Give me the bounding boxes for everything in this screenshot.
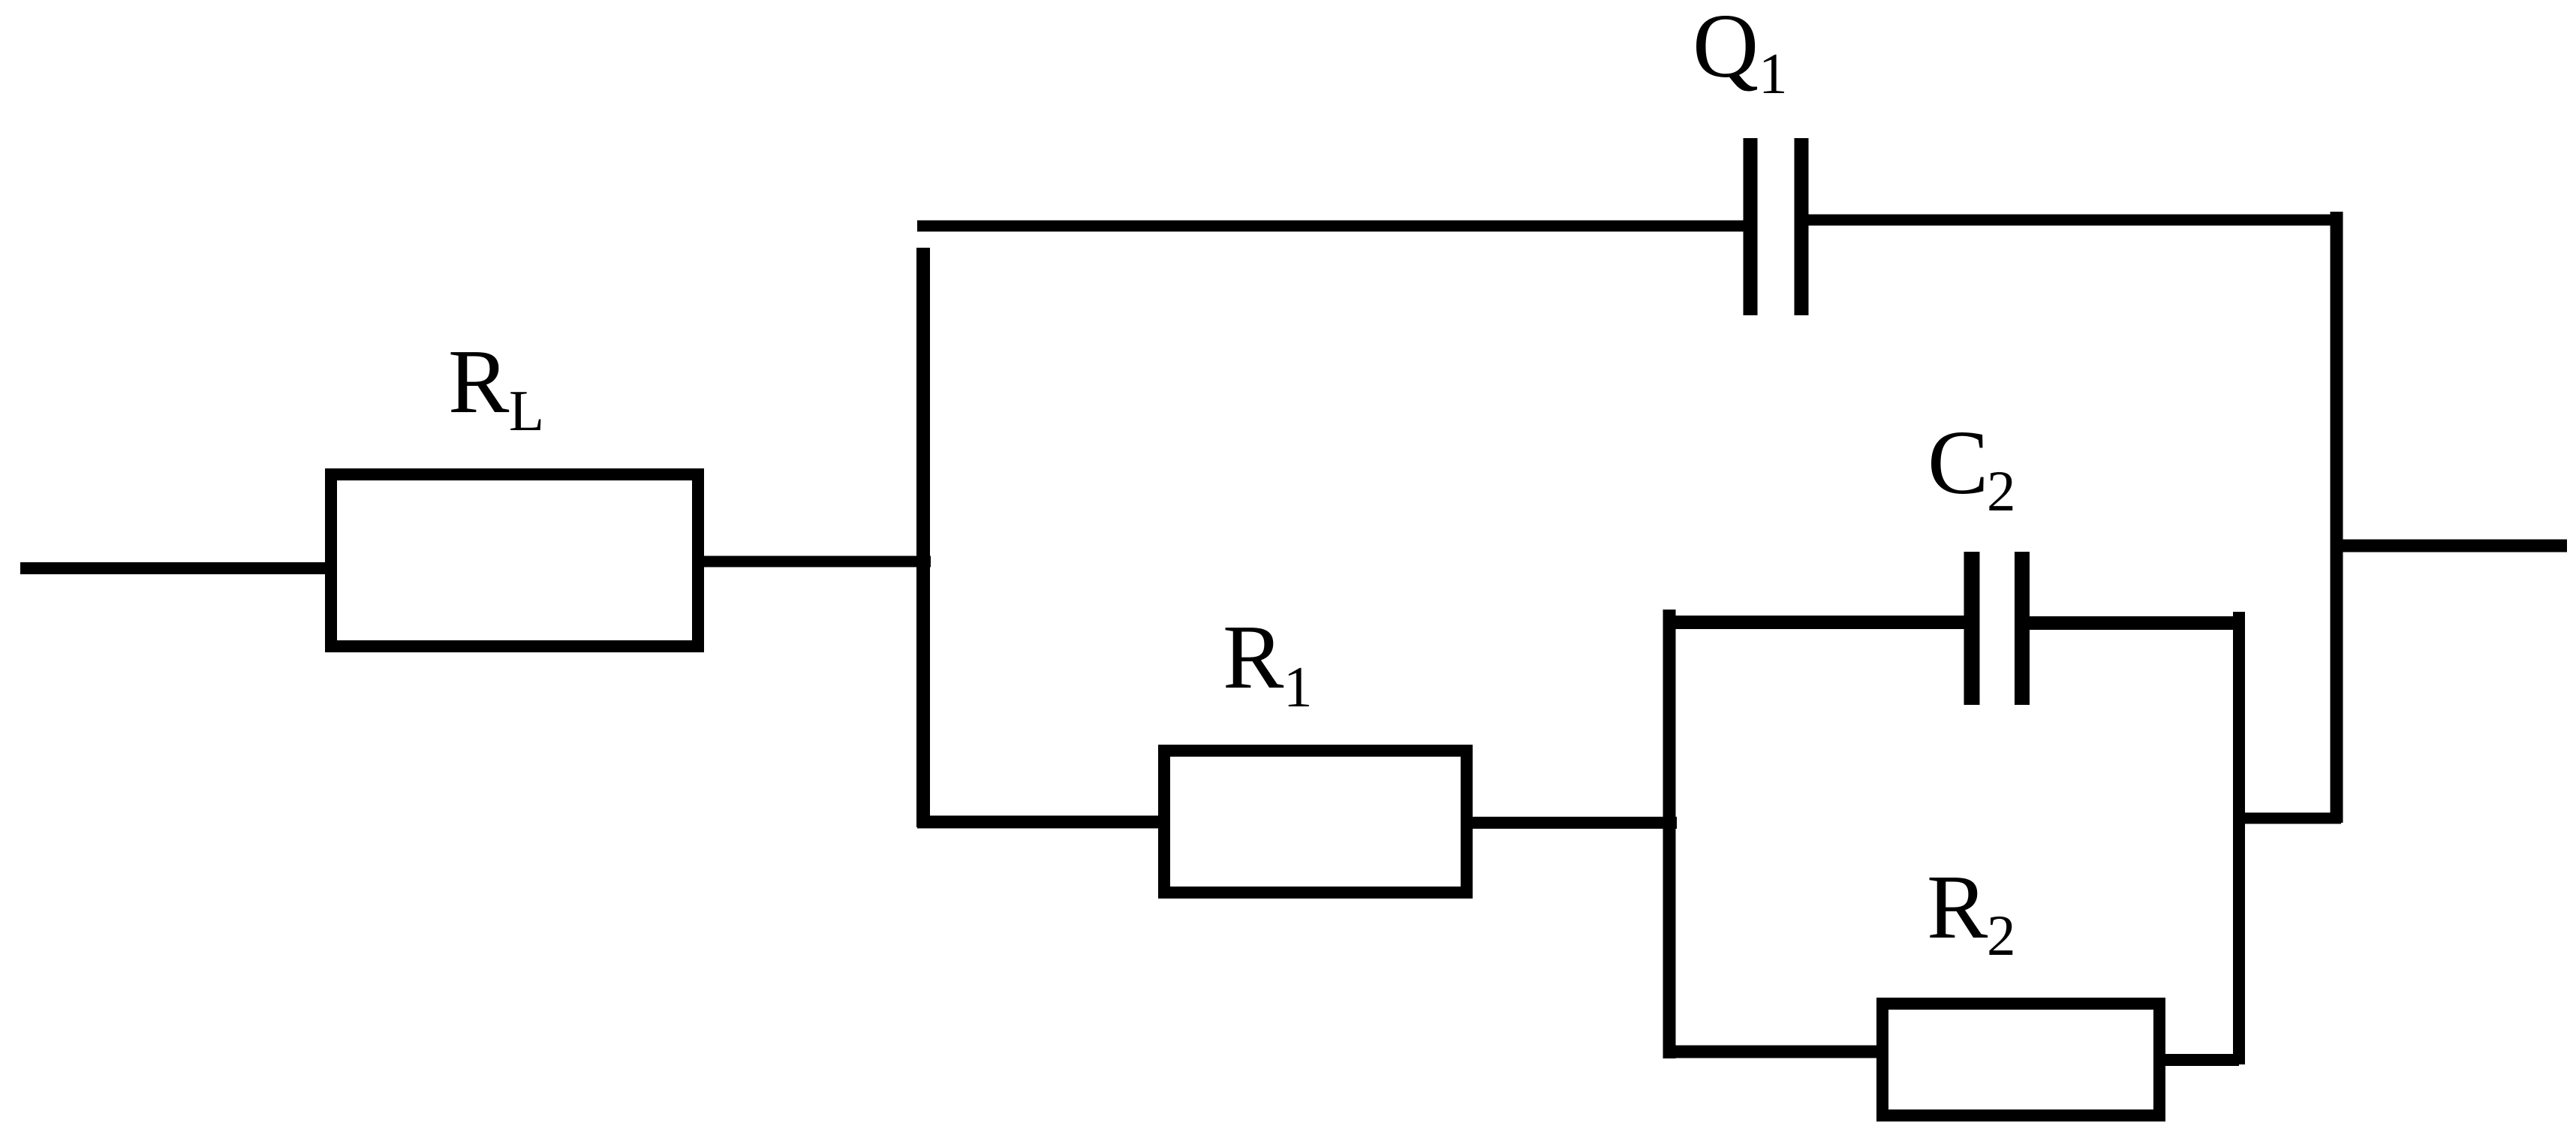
wire RL to node A xyxy=(698,556,931,568)
wire parallel group bottom left xyxy=(1665,1046,1882,1058)
svg-text:1: 1 xyxy=(1283,655,1313,719)
wire parallel group top right xyxy=(2022,616,2239,630)
resistor RL body xyxy=(331,474,698,646)
svg-text:R: R xyxy=(1927,857,1988,958)
capacitor Q1 right plate xyxy=(1795,138,1809,315)
wire output lead xyxy=(2337,540,2567,552)
svg-text:C: C xyxy=(1927,412,1988,513)
wire node C connector to right vertical xyxy=(2234,813,2341,824)
wire parallel group top left xyxy=(1665,616,1972,629)
label R2 xyxy=(1927,857,2016,968)
label R1 xyxy=(1223,607,1313,719)
node A vertical branch wire xyxy=(916,248,930,827)
wire left input lead xyxy=(20,562,336,574)
svg-text:L: L xyxy=(509,378,544,443)
label Q1 xyxy=(1693,0,1788,106)
wire right vertical xyxy=(2331,212,2343,823)
wire R2 to right vertical xyxy=(2159,1054,2239,1066)
wire Q1 to right corner xyxy=(1807,215,2341,226)
svg-text:Q: Q xyxy=(1693,0,1759,97)
svg-text:1: 1 xyxy=(1759,41,1788,106)
wire R1 to node B xyxy=(1467,817,1677,829)
capacitor Q1 left plate xyxy=(1744,138,1758,315)
svg-text:R: R xyxy=(448,331,510,432)
wire parallel group right vertical xyxy=(2233,612,2245,1064)
capacitor C2 left plate xyxy=(1964,552,1980,705)
resistor R1 body xyxy=(1164,751,1467,893)
label C2 xyxy=(1927,412,2016,523)
resistor R2 body xyxy=(1882,1004,2159,1115)
capacitor C2 right plate xyxy=(2015,552,2030,705)
wire top branch horizontal to Q1 xyxy=(917,221,1750,232)
svg-text:2: 2 xyxy=(1987,459,2016,523)
svg-text:2: 2 xyxy=(1987,903,2016,968)
wire bottom branch to R1 xyxy=(917,816,1165,829)
label RL xyxy=(448,331,544,443)
svg-text:R: R xyxy=(1223,607,1284,708)
node B left vertical of parallel group xyxy=(1663,610,1676,1058)
